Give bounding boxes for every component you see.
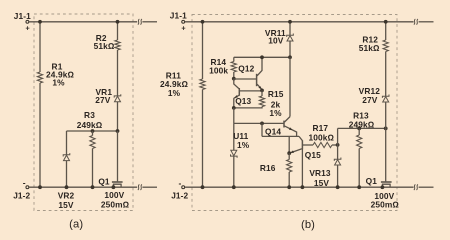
svg-text:Q12: Q12 (238, 63, 254, 73)
node rail-R11 bottom (201, 185, 205, 189)
node VR11-R14 wire (288, 55, 292, 59)
connector J1-1 (a) (26, 20, 29, 23)
resistor R13 249k (358, 128, 360, 135)
svg-text:J1-1: J1-1 (14, 11, 31, 21)
node rail-R12 (384, 20, 388, 24)
node Q12 emitter-Q13 base-R15 (260, 89, 264, 93)
node R14-Q12 base-Q13 collector (232, 77, 236, 81)
wire VR12 to Q1 gate (b) (385, 128, 387, 181)
node Q15 emitter-R16 (287, 151, 291, 155)
zener diode VR2 15V (66, 131, 68, 155)
wire Q13 emitter to U11 (233, 108, 235, 124)
node rail-R1 top (38, 20, 42, 24)
zener diode VR1 27V (114, 94, 121, 97)
transistor Q14 (283, 121, 285, 128)
mosfet Q1 100V 250mohm (b) (381, 181, 392, 183)
svg-text:10V: 10V (268, 36, 284, 46)
svg-text:Q1: Q1 (98, 176, 110, 186)
node R16 bottom (287, 185, 291, 189)
resistor R17 100k (313, 142, 332, 147)
node Q15 line-rail (301, 185, 305, 189)
transistor Q13 (234, 79, 239, 89)
wire break bottom right (a) (138, 185, 140, 190)
svg-text:(b): (b) (301, 219, 315, 231)
zener diode VR11 10V (289, 22, 291, 35)
transistor Q12 (234, 78, 256, 80)
svg-text:J1-1: J1-1 (170, 11, 187, 21)
dashed module boundary (b) (192, 15, 397, 211)
resistor R16 (288, 153, 290, 159)
svg-text:1%: 1% (269, 108, 282, 118)
wire top rail (b) (185, 21, 414, 23)
wire bottom rail (b) (185, 186, 414, 188)
node R17-VR13 (336, 143, 340, 147)
svg-text:249kΩ: 249kΩ (349, 120, 375, 130)
svg-text:-: - (23, 178, 26, 188)
svg-text:15V: 15V (58, 200, 74, 210)
svg-text:1%: 1% (237, 140, 250, 150)
wire R14 top node (234, 56, 290, 58)
zener diode VR12 27V (382, 95, 389, 98)
svg-text:100kΩ: 100kΩ (309, 132, 335, 142)
svg-text:51kΩ: 51kΩ (359, 43, 380, 53)
svg-text:R15: R15 (268, 89, 284, 99)
node VR13 bottom (336, 185, 340, 189)
node VR2 bottom (65, 185, 69, 189)
node R13 top (357, 126, 361, 130)
node Q1 source (a) (112, 185, 116, 189)
node R3 bottom (91, 185, 95, 189)
zener diode VR13 15V (337, 145, 339, 159)
shunt reference U11 1% (233, 123, 235, 150)
dashed module boundary (a) (34, 14, 133, 211)
connector J1-2 (b) (182, 186, 185, 189)
svg-text:100k: 100k (209, 65, 228, 75)
resistor R11 24.9k 1% (202, 22, 204, 79)
node rail-R2 (a) (116, 20, 120, 24)
svg-text:249kΩ: 249kΩ (77, 120, 103, 130)
svg-text:1%: 1% (168, 88, 181, 98)
resistor R14 100k (233, 57, 235, 61)
node R13 bottom (357, 185, 361, 189)
svg-text:250mΩ: 250mΩ (101, 200, 130, 210)
node rail-R11 top (201, 20, 205, 24)
node Q12 collector (260, 55, 264, 59)
svg-text:Q13: Q13 (235, 96, 251, 106)
wire Q14 base node (234, 122, 284, 124)
wire gate node (a) (67, 130, 118, 132)
node Q1 source (b) (381, 185, 385, 189)
svg-text:15V: 15V (314, 178, 330, 188)
svg-text:+: + (26, 24, 30, 33)
mosfet Q1 100V 250mohm (a) (112, 181, 123, 183)
svg-text:R16: R16 (260, 163, 276, 173)
wire break top right (b) (414, 19, 416, 24)
svg-text:Q14: Q14 (265, 127, 281, 137)
node VR1-R3 junction (116, 129, 120, 133)
node U11 bottom (232, 185, 236, 189)
wire break top right (a) (138, 19, 140, 24)
svg-text:VR13: VR13 (309, 168, 331, 178)
resistor R15 2k 1% (261, 90, 263, 96)
svg-text:J1-2: J1-2 (171, 190, 188, 200)
svg-text:27V: 27V (362, 95, 378, 105)
svg-text:(a): (a) (69, 219, 83, 231)
wire W1 to Q15 (262, 135, 299, 137)
node R15 return-Q13 emitter (232, 106, 236, 110)
svg-text:Q15: Q15 (305, 150, 321, 160)
node base wire junction (260, 122, 264, 126)
connector J1-1 (b) (182, 20, 185, 23)
resistor R1 24.9k 1% (39, 22, 41, 72)
wire gate node (b) (338, 127, 386, 129)
resistor R12 51k (385, 22, 387, 40)
node rail-VR11 (288, 20, 292, 24)
wire R2/VR1 branch (a) (117, 22, 119, 40)
svg-text:J1-2: J1-2 (13, 190, 30, 200)
resistor R3 249k (91, 129, 95, 133)
svg-text:27V: 27V (95, 95, 111, 105)
wire bottom rail (a) (29, 186, 137, 188)
wire VR13 branch top (337, 128, 339, 145)
svg-text:Q1: Q1 (366, 176, 378, 186)
svg-text:+: + (181, 23, 185, 32)
svg-text:1%: 1% (52, 78, 65, 88)
svg-text:51kΩ: 51kΩ (94, 41, 115, 51)
node rail-R1 bottom (38, 185, 42, 189)
wire V1 gate-sense drop (288, 136, 290, 153)
connector J1-2 (a) (26, 186, 29, 189)
svg-text:-: - (179, 178, 182, 188)
wire top rail (a) (29, 21, 137, 23)
node VR12-gate junction (384, 126, 388, 130)
wire break bottom right (b) (414, 185, 416, 190)
transistor Q15 (299, 136, 302, 140)
svg-text:R3: R3 (84, 110, 95, 120)
svg-text:250mΩ: 250mΩ (371, 200, 400, 210)
svg-text:R17: R17 (312, 123, 328, 133)
resistor R2 51k (115, 40, 120, 50)
